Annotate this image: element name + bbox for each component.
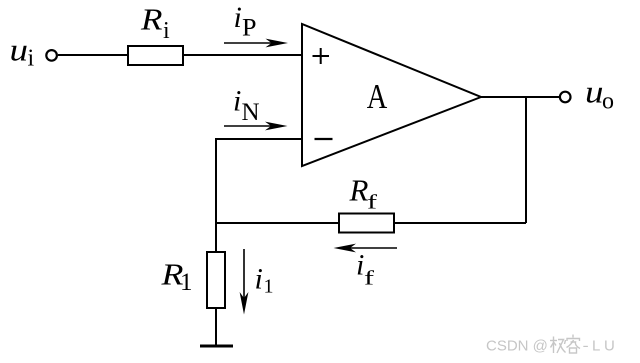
wire feedback right segment	[394, 222, 526, 224]
svg-text:R: R	[349, 173, 369, 208]
svg-text:u: u	[585, 74, 604, 110]
op-amp plus input marking	[313, 48, 330, 64]
wire input terminal to R_i	[58, 54, 128, 56]
label u_o	[585, 74, 614, 115]
svg-text:f: f	[367, 192, 377, 214]
label i_1	[255, 263, 274, 298]
current arrow i_1	[240, 249, 249, 315]
svg-text:u: u	[10, 32, 29, 68]
resistor R_f	[339, 214, 394, 233]
wire op-amp output	[481, 96, 559, 98]
svg-text:-: -	[583, 338, 589, 355]
svg-text:i: i	[255, 263, 263, 296]
wire R_i to op-amp noninverting input	[183, 54, 303, 56]
op-amp minus input marking	[315, 138, 333, 140]
ground	[200, 345, 233, 348]
label R_1	[160, 257, 192, 297]
node u_i input terminal	[46, 50, 57, 61]
svg-text:f: f	[364, 268, 374, 290]
svg-text:i: i	[234, 1, 242, 34]
svg-text:P: P	[242, 14, 257, 41]
svg-text:i: i	[28, 46, 35, 72]
svg-text:1: 1	[180, 269, 193, 296]
resistor R_1	[207, 252, 225, 308]
resistor R_i	[128, 46, 183, 65]
current arrow i_P	[224, 39, 288, 48]
svg-text:o: o	[602, 89, 614, 115]
label i_N	[233, 85, 260, 127]
current arrow i_f	[334, 244, 398, 253]
svg-text:A: A	[367, 77, 388, 116]
watermark character ke	[567, 335, 581, 354]
svg-text:R: R	[140, 2, 163, 37]
svg-text:L U: L U	[592, 338, 615, 355]
svg-text:i: i	[163, 18, 170, 44]
wire feedback vertical tap from output	[525, 97, 527, 223]
current arrow i_N	[224, 122, 288, 131]
svg-text:i: i	[233, 85, 241, 118]
wire inverting input	[216, 138, 303, 140]
wire vertical from inverting input down to R_1	[215, 138, 217, 252]
label i_f	[356, 249, 374, 290]
svg-text:N: N	[242, 99, 260, 126]
label u_i	[10, 32, 35, 72]
label R_f	[349, 173, 378, 214]
op-amp U1 triangle	[302, 24, 481, 166]
label i_P	[234, 1, 257, 41]
svg-text:CSDN @: CSDN @	[486, 338, 548, 355]
wire R_1 to ground	[215, 308, 217, 346]
node u_o output terminal	[560, 92, 571, 103]
wire feedback left segment to node	[215, 222, 339, 224]
label R_i	[140, 2, 170, 45]
watermark character ji	[550, 337, 566, 354]
svg-text:1: 1	[264, 276, 274, 298]
